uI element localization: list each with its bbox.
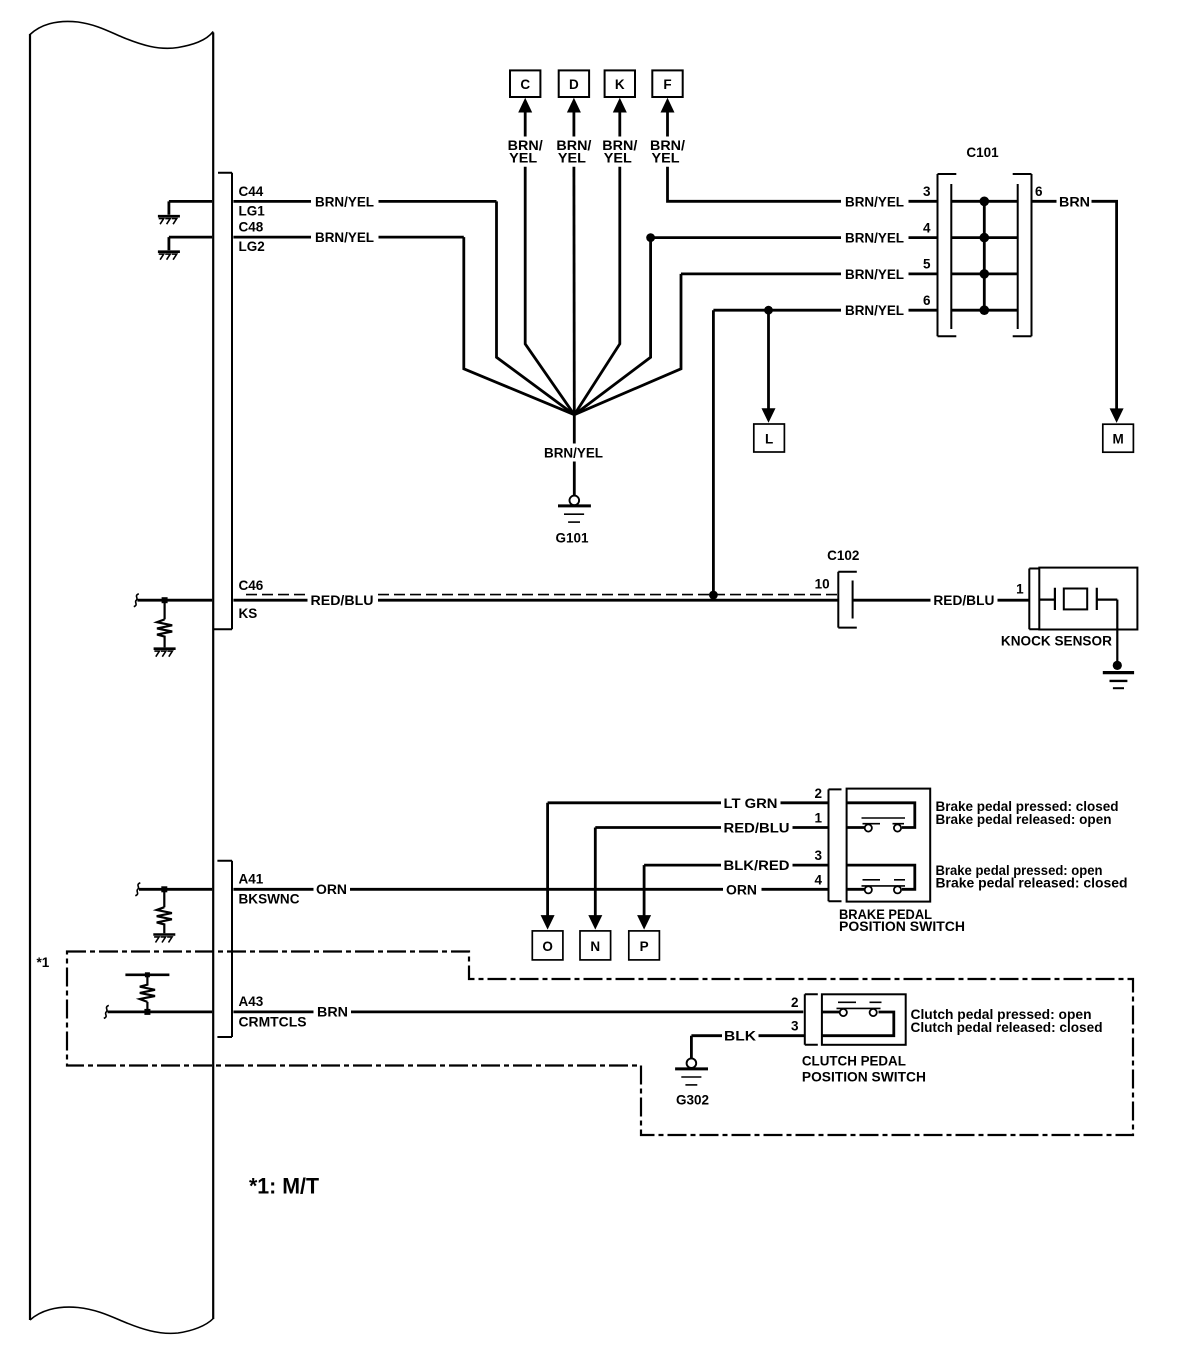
wire RED/BLU (brake pin 1) (595, 826, 828, 829)
svg-text:M: M (1112, 432, 1123, 447)
svg-text:3: 3 (814, 848, 822, 863)
svg-text:YEL: YEL (509, 150, 537, 165)
svg-text:BRN: BRN (1059, 194, 1090, 209)
wire from C to ground fan (525, 167, 574, 415)
svg-text:BLK: BLK (724, 1029, 756, 1044)
svg-text:G101: G101 (555, 530, 589, 545)
svg-text:D: D (569, 77, 579, 92)
brake pedal position switch box (847, 789, 931, 902)
knock sensor case ground wire (1116, 600, 1118, 662)
wire from D to ground fan (573, 167, 576, 415)
piezo element (knock sensor) (1039, 588, 1055, 610)
svg-text:BRN/YEL: BRN/YEL (845, 303, 904, 318)
svg-text:3: 3 (923, 184, 931, 199)
arrow wire to P (643, 865, 646, 915)
clutch switch contact set (closed) (822, 1012, 894, 1036)
arrow into D (573, 111, 576, 137)
svg-text:BRN/YEL: BRN/YEL (845, 267, 904, 282)
wire from K to ground fan (574, 167, 620, 415)
break squiggle (KS pigtail) (134, 594, 139, 607)
svg-text:BRN/YEL: BRN/YEL (315, 230, 374, 245)
svg-text:RED/BLU: RED/BLU (724, 821, 790, 836)
svg-text:F: F (663, 77, 671, 92)
svg-text:3: 3 (791, 1019, 799, 1034)
svg-text:Clutch pedal released: closed: Clutch pedal released: closed (911, 1020, 1103, 1035)
svg-text:ORN: ORN (726, 882, 757, 897)
junction square (A43 pigtail) (144, 1009, 150, 1015)
junction dot pin6 branch (764, 306, 773, 315)
ground (knock sensor case) (1103, 671, 1134, 674)
svg-text:4: 4 (814, 872, 822, 887)
svg-text:POSITION SWITCH: POSITION SWITCH (839, 919, 965, 934)
rail bar (A43 pull-up) (125, 973, 169, 976)
KS internal pigtail wire with break (138, 599, 213, 602)
svg-text:6: 6 (1035, 184, 1043, 199)
svg-text:LG1: LG1 (239, 203, 266, 218)
ground (LG1 chassis) (158, 215, 180, 218)
brake switch upper contact set (open) (847, 803, 915, 828)
svg-text:10: 10 (815, 577, 830, 592)
connector C101 right half (1013, 174, 1032, 336)
svg-text:BRN/YEL: BRN/YEL (845, 231, 904, 246)
wire RED/BLU from C102 to knock sensor (853, 599, 1030, 602)
C101 internal bus (983, 201, 986, 310)
junction square (A41 pigtail) (161, 886, 167, 892)
connector box D (559, 70, 589, 97)
wire C101 pin 4 BRN/YEL to ground fan (574, 238, 937, 415)
clutch switch connector bracket (805, 994, 818, 1045)
wire BRN A43 to clutch pin 2 (233, 1011, 803, 1014)
brake switch lower contact set (closed) (847, 865, 915, 889)
svg-text:BRN/YEL: BRN/YEL (544, 446, 603, 461)
svg-text:YEL: YEL (558, 150, 586, 165)
svg-text:CLUTCH PEDAL: CLUTCH PEDAL (802, 1054, 906, 1069)
A41 internal pigtail wire with break (139, 888, 212, 891)
svg-text:C44: C44 (239, 184, 264, 199)
svg-text:O: O (542, 939, 553, 954)
connector C101 left half (938, 174, 957, 336)
svg-text:6: 6 (923, 293, 931, 308)
svg-text:YEL: YEL (652, 150, 680, 165)
svg-text:BRN/YEL: BRN/YEL (845, 194, 904, 209)
break squiggle (A41 pigtail) (135, 883, 140, 896)
svg-text:LG2: LG2 (239, 239, 265, 254)
connector C102 symbol (838, 572, 857, 628)
svg-text:C101: C101 (966, 145, 999, 160)
ground fan common wire down to G101 (573, 415, 576, 497)
svg-text:BRN/YEL: BRN/YEL (315, 194, 374, 209)
wire LG2 internal ground pigtail (169, 237, 212, 250)
wire C101 pin 6 BRN/YEL to shield drain (713, 310, 937, 591)
svg-text:KS: KS (239, 606, 258, 621)
svg-text:RED/BLU: RED/BLU (311, 593, 374, 608)
svg-text:C48: C48 (239, 220, 264, 235)
svg-text:LT GRN: LT GRN (724, 796, 778, 811)
svg-text:A43: A43 (239, 994, 264, 1009)
wire BLK clutch pin 3 to G302 (691, 1036, 804, 1059)
svg-text:4: 4 (923, 220, 931, 235)
svg-text:1: 1 (1016, 582, 1024, 597)
svg-text:Brake pedal released: closed: Brake pedal released: closed (936, 876, 1128, 891)
junction dot pin4 corner (646, 233, 655, 242)
break squiggle (A43 pigtail) (104, 1005, 109, 1018)
svg-text:5: 5 (923, 257, 931, 272)
svg-text:N: N (590, 939, 600, 954)
svg-text:2: 2 (814, 786, 822, 801)
svg-text:BLK/RED: BLK/RED (724, 858, 790, 873)
rail junction square (145, 972, 150, 977)
junction dot shield drain (709, 591, 718, 600)
destination box N (580, 931, 611, 960)
ground G101 symbol (570, 496, 580, 506)
connector box F (652, 70, 682, 97)
svg-text:K: K (615, 77, 625, 92)
clutch pedal position switch box (822, 994, 906, 1045)
wire C48 BRN/YEL to ground fan (233, 237, 574, 415)
svg-text:KNOCK SENSOR: KNOCK SENSOR (1001, 634, 1112, 649)
svg-text:Brake pedal released: open: Brake pedal released: open (936, 812, 1112, 827)
M/T option dash-dot boundary box (67, 952, 1133, 1136)
ground G302 symbol (687, 1058, 697, 1068)
svg-text:2: 2 (791, 995, 799, 1010)
ground (KS resistor chassis) (154, 647, 176, 650)
connector box C (510, 70, 540, 97)
svg-text:C102: C102 (827, 548, 859, 563)
wire C44 BRN/YEL to ground fan (233, 201, 574, 414)
arrow into F (666, 111, 669, 137)
wire ORN A41 to brake pin 4 (233, 888, 828, 891)
ECM band torn top edge (30, 21, 213, 48)
wire BRN from C101 to M (1032, 201, 1117, 409)
svg-text:1: 1 (814, 811, 822, 826)
ground (A41 resistor chassis) (153, 933, 175, 936)
svg-text:ORN: ORN (316, 882, 347, 897)
svg-text:C46: C46 (239, 578, 264, 593)
brake switch connector bracket (829, 789, 842, 901)
destination box O (532, 931, 563, 960)
ground (LG2 chassis) (158, 250, 180, 253)
destination box P (629, 931, 660, 960)
A43 internal pigtail wire with break (108, 1011, 213, 1014)
wire C101 pin 5 BRN/YEL to ground fan (574, 274, 937, 415)
arrow into K (618, 111, 621, 137)
wire LG1 internal ground pigtail (169, 201, 212, 214)
shield dashed line (KS cable) (246, 594, 837, 596)
ECM connector bracket (upper, C44/C48/C46) (213, 173, 232, 629)
ECM connector bracket (lower, A41/A43) (217, 861, 232, 1037)
svg-text:C: C (520, 77, 530, 92)
svg-text:BRN: BRN (317, 1004, 348, 1019)
svg-text:POSITION SWITCH: POSITION SWITCH (802, 1070, 926, 1085)
svg-text:L: L (765, 432, 773, 447)
wire LT GRN (brake pin 2) (548, 801, 829, 804)
wire from F to C101 pin 3 (668, 167, 938, 202)
resistor (KS internal) (157, 600, 172, 647)
destination box L (754, 424, 785, 452)
svg-text:YEL: YEL (604, 150, 632, 165)
ECM band right edge (212, 33, 214, 1320)
svg-text:BKSWNC: BKSWNC (239, 892, 300, 907)
junction dots C101 bus (980, 197, 990, 207)
ECM band torn bottom edge (30, 1307, 213, 1333)
arrow wire to N (594, 828, 597, 916)
junction square (KS pigtail) (162, 597, 168, 603)
arrow wire to O (546, 803, 549, 916)
wire KS RED/BLU (solid core) (233, 599, 838, 602)
svg-text:G302: G302 (676, 1092, 709, 1107)
C101 internal joint rows (951, 201, 1017, 310)
svg-text:A41: A41 (239, 871, 264, 886)
resistor (A43 internal, to rail) (140, 976, 155, 1012)
knock sensor connector bracket (1029, 569, 1039, 630)
arrow wire to L (767, 310, 770, 409)
svg-text:P: P (640, 939, 649, 954)
svg-text:RED/BLU: RED/BLU (933, 593, 994, 608)
resistor (A41 internal) (157, 889, 172, 933)
svg-text:*1: M/T: *1: M/T (249, 1174, 320, 1199)
arrowhead into M (1110, 408, 1124, 423)
svg-text:CRMTCLS: CRMTCLS (239, 1014, 307, 1029)
junction dot (case ground) (1113, 661, 1122, 670)
connector box K (605, 70, 635, 97)
ECM band left edge (29, 34, 31, 1320)
svg-text:*1: *1 (37, 955, 50, 970)
destination box M (1103, 424, 1134, 452)
arrow into C (524, 111, 527, 137)
wire BLK/RED (brake pin 3) (644, 864, 828, 867)
knock sensor box (1039, 568, 1137, 630)
